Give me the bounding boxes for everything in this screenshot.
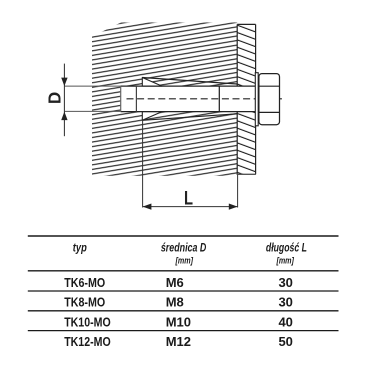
dimension D arrow bottom: [61, 112, 67, 121]
expansion wedge top: [142, 78, 162, 87]
dimension L line: [143, 206, 238, 208]
svg-text:M10: M10: [166, 314, 191, 329]
table row separator 2: [28, 310, 339, 312]
svg-text:30: 30: [278, 295, 292, 310]
centerline (dashed): [127, 98, 284, 100]
table header: [73, 243, 307, 267]
svg-text:długość L: długość L: [266, 243, 307, 255]
svg-text:typ: typ: [73, 243, 87, 255]
bolt top edge: [121, 85, 256, 87]
hex nut: [259, 74, 280, 125]
svg-text:[mm]: [mm]: [175, 255, 194, 266]
sleeve bottom edge: [142, 114, 237, 121]
svg-text:TK10-MO: TK10-MO: [64, 314, 111, 329]
nut facet line top: [259, 85, 279, 87]
dimension L arrow left: [143, 204, 152, 210]
nut facet line bottom: [259, 111, 279, 113]
svg-text:50: 50: [278, 334, 292, 349]
hole edge extension lines (to D dimension): [64, 85, 120, 87]
fixture plate hatch: [237, 24, 255, 174]
washer: [255, 73, 258, 126]
wall cross-section hatch: [92, 23, 237, 176]
table row separator 3: [28, 330, 339, 332]
svg-text:30: 30: [278, 275, 292, 290]
dimension D line: [63, 64, 65, 137]
svg-text:D: D: [45, 92, 65, 104]
svg-text:M8: M8: [166, 295, 184, 310]
wall top-left hatch clip wedge: [92, 22, 122, 37]
dimension L right extension line: [237, 175, 239, 208]
anchor bolt body (white): [121, 86, 256, 112]
dimension L arrow right: [229, 204, 238, 210]
svg-text:TK6-MO: TK6-MO: [64, 275, 105, 290]
svg-text:40: 40: [278, 314, 292, 329]
table header separator: [28, 270, 339, 272]
svg-text:M6: M6: [166, 275, 184, 290]
dimension D arrow top: [61, 78, 67, 87]
bolt left end cap: [120, 86, 122, 112]
svg-text:średnica D: średnica D: [161, 243, 207, 255]
expansion wedge bottom: [142, 112, 162, 121]
sleeve end line: [218, 86, 220, 112]
svg-text:[mm]: [mm]: [276, 255, 295, 266]
table row separator 1: [28, 290, 339, 292]
sleeve top edge: [142, 78, 237, 85]
plate bottom edge: [237, 173, 256, 175]
svg-text:L: L: [184, 188, 193, 210]
svg-text:TK12-MO: TK12-MO: [64, 334, 111, 349]
svg-text:M12: M12: [166, 334, 191, 349]
cone base line: [135, 86, 137, 112]
svg-text:TK8-MO: TK8-MO: [64, 295, 105, 310]
table data: [64, 275, 293, 349]
table top border: [28, 235, 339, 237]
plate outline: [237, 24, 255, 174]
bolt bottom edge: [121, 111, 256, 113]
dimension L left extension line: [142, 120, 144, 208]
